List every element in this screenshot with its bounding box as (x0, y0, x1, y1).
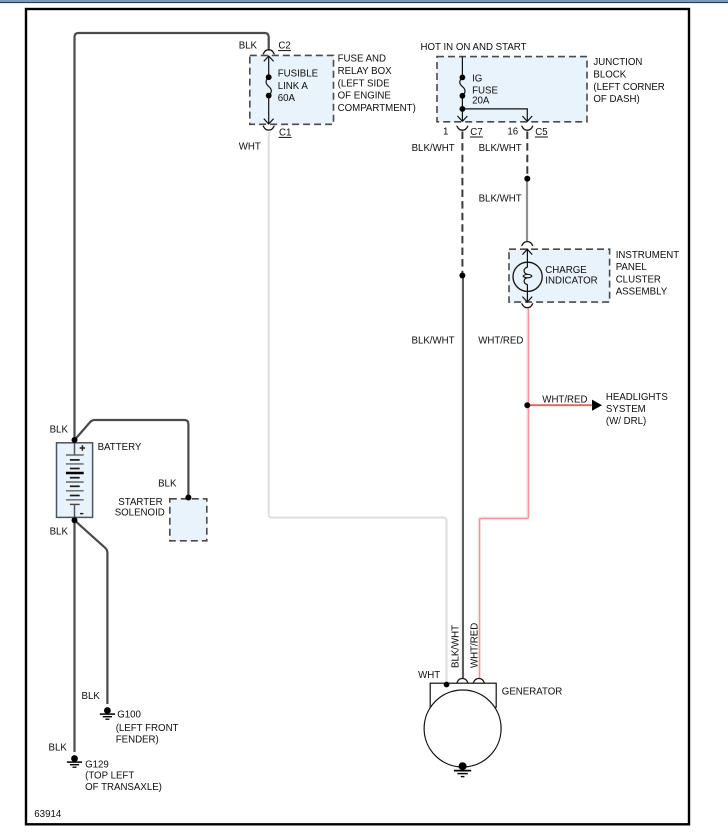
svg-text:BLK/WHT: BLK/WHT (412, 143, 455, 154)
junction dot headlights branch (524, 402, 530, 408)
battery box (57, 443, 93, 518)
ground G129 (67, 755, 82, 767)
svg-text:SYSTEM: SYSTEM (606, 404, 646, 415)
svg-text:ASSEMBLY: ASSEMBLY (616, 287, 668, 298)
wire BLK/WHT white tracer splice to generator (460, 276, 462, 679)
wire BLK/WHT solid splice to generator (462, 276, 464, 679)
connector cup at charge indicator bottom (521, 304, 533, 308)
generator ground bars (454, 771, 471, 777)
fusible link arrow down at C1 (264, 119, 274, 124)
IG fuse squiggle (460, 77, 465, 95)
svg-text:HEADLIGHTS: HEADLIGHTS (606, 392, 668, 403)
svg-text:WHT/RED: WHT/RED (470, 623, 481, 668)
wire BLK/WHT dashed C7 to splice (461, 132, 463, 276)
svg-text:BLK: BLK (239, 41, 258, 52)
starter solenoid top dot (185, 495, 191, 501)
arrow down at C7 (458, 116, 468, 121)
battery - terminal stem (74, 504, 76, 517)
connector dome at charge indicator top (521, 242, 533, 246)
svg-text:BLK: BLK (50, 527, 69, 538)
svg-text:IG: IG (472, 74, 482, 85)
svg-text:1: 1 (443, 126, 448, 137)
svg-text:(LEFT FRONT: (LEFT FRONT (116, 723, 179, 734)
battery + sign (80, 445, 85, 450)
svg-text:BLK: BLK (82, 691, 101, 702)
junction dot at branch (460, 106, 466, 112)
svg-text:BLK/WHT: BLK/WHT (479, 194, 522, 205)
svg-text:BLK: BLK (158, 478, 177, 489)
fusible link A internal wire lower (268, 96, 270, 124)
connector C7 cup (457, 126, 469, 130)
svg-text:G129: G129 (85, 760, 109, 771)
svg-text:STARTER: STARTER (118, 497, 162, 508)
battery bottom junction dot (72, 517, 78, 523)
battery top junction dot (72, 437, 78, 443)
svg-text:GENERATOR: GENERATOR (502, 686, 562, 697)
svg-text:CHARGE: CHARGE (545, 265, 587, 276)
charge indicator lamp circle (513, 262, 542, 291)
svg-text:INDICATOR: INDICATOR (545, 276, 597, 287)
junction block internal wire lower (461, 96, 463, 122)
charge indicator arrow up (522, 249, 532, 254)
svg-text:WHT: WHT (418, 670, 440, 681)
svg-text:HOT IN ON AND START: HOT IN ON AND START (421, 42, 527, 53)
svg-text:OF TRANSAXLE): OF TRANSAXLE) (85, 782, 162, 793)
svg-text:16: 16 (507, 126, 518, 137)
wire BLK/WHT solid splice to charge indicator (526, 179, 528, 242)
battery + terminal stem (74, 443, 76, 455)
connector C2 dome (263, 50, 275, 54)
junction block internal wire upper (461, 57, 463, 78)
IG fuse dot top (460, 75, 466, 81)
headlights arrow (592, 400, 602, 411)
battery - sign (80, 513, 83, 515)
fusible link dot bottom (266, 93, 272, 99)
svg-text:BLK: BLK (49, 743, 68, 754)
wire WHT/RED branch to headlights (527, 404, 592, 406)
svg-text:WHT: WHT (239, 141, 261, 152)
wire BLK battery+ to starter solenoid (75, 420, 189, 497)
svg-text:COMPARTMENT): COMPARTMENT) (338, 103, 416, 114)
svg-text:INSTRUMENT: INSTRUMENT (616, 250, 680, 261)
connector C1 cup (263, 126, 275, 130)
wire WHT/RED white tracer charge indicator to generator (478, 309, 527, 678)
starter solenoid box (170, 499, 207, 541)
wire BLK battery- to ground G129 (73, 520, 75, 752)
svg-text:(TOP LEFT: (TOP LEFT (85, 771, 134, 782)
fuse and relay box (dashed, fusible link) (250, 55, 334, 124)
splice dot on C5 wire (524, 176, 530, 182)
svg-text:G100: G100 (117, 710, 141, 721)
fusible link arrow up at C2 (264, 56, 274, 61)
fusible link squiggle (266, 77, 271, 95)
generator connector dome WHT/RED (473, 679, 485, 683)
wire WHT/RED red line charge indicator to generator (480, 309, 529, 678)
charge indicator internal wire lower (526, 284, 528, 302)
wire WHT fusible link C1 to generator (269, 132, 447, 685)
junction block branch wire to C5 (462, 109, 527, 122)
svg-text:(LEFT CORNER: (LEFT CORNER (593, 82, 664, 93)
generator WHT terminal dot (444, 682, 450, 688)
svg-text:20A: 20A (472, 96, 490, 107)
svg-text:OF DASH): OF DASH) (593, 94, 639, 105)
svg-text:C2: C2 (278, 41, 290, 52)
IG fuse dot bottom (460, 93, 466, 99)
generator housing rect (430, 683, 496, 707)
svg-text:C1: C1 (279, 127, 291, 138)
instrument panel cluster box (509, 249, 610, 302)
lamp filament lower bump (524, 278, 527, 285)
svg-text:JUNCTION: JUNCTION (593, 57, 642, 68)
generator ground dot (459, 762, 467, 770)
svg-text:RELAY BOX: RELAY BOX (338, 66, 393, 77)
svg-text:C5: C5 (535, 127, 547, 138)
svg-text:63914: 63914 (34, 809, 62, 820)
svg-text:(W/ DRL): (W/ DRL) (606, 416, 646, 427)
generator circle (424, 690, 501, 767)
svg-text:FUSE AND: FUSE AND (338, 54, 386, 65)
wire BLK battery+ to fusible link C2 (75, 33, 269, 440)
charge indicator internal wire upper (526, 249, 528, 267)
svg-text:(LEFT SIDE: (LEFT SIDE (338, 78, 391, 89)
svg-text:FENDER): FENDER) (116, 735, 159, 746)
ground G100 (100, 707, 115, 719)
junction block box (437, 57, 587, 122)
svg-text:WHT/RED: WHT/RED (478, 336, 523, 347)
svg-text:BATTERY: BATTERY (98, 442, 142, 453)
svg-text:BLK/WHT: BLK/WHT (412, 336, 455, 347)
svg-text:BLK: BLK (50, 425, 69, 436)
svg-text:CLUSTER: CLUSTER (616, 274, 661, 285)
svg-text:LINK A: LINK A (278, 81, 309, 92)
svg-text:WHT/RED: WHT/RED (542, 395, 587, 406)
svg-text:BLK/WHT: BLK/WHT (479, 143, 522, 154)
svg-text:BLOCK: BLOCK (593, 70, 626, 81)
generator connector dome BLK/WHT (457, 679, 469, 683)
charge indicator arrow down (522, 297, 532, 302)
svg-text:FUSIBLE: FUSIBLE (278, 69, 319, 80)
battery plates (66, 455, 84, 504)
svg-text:OF ENGINE: OF ENGINE (338, 91, 392, 102)
svg-text:60A: 60A (278, 93, 296, 104)
svg-text:C7: C7 (470, 127, 482, 138)
svg-text:PANEL: PANEL (616, 262, 648, 273)
svg-text:SOLENOID: SOLENOID (115, 508, 165, 519)
wire BLK battery- to ground G100 (75, 520, 108, 704)
arrow down at C5 (522, 116, 532, 121)
wire BLK/WHT dashed C5 to splice (526, 132, 528, 179)
fusible link dot top (266, 74, 272, 80)
blue top strip (0, 0, 728, 2)
svg-text:BLK/WHT: BLK/WHT (451, 625, 462, 668)
lamp filament almond (523, 274, 532, 277)
lamp filament upper bump (524, 267, 527, 274)
splice dot on C7 wire (459, 273, 465, 279)
connector C5 cup (521, 126, 533, 130)
fusible link A internal wire upper (268, 56, 270, 77)
